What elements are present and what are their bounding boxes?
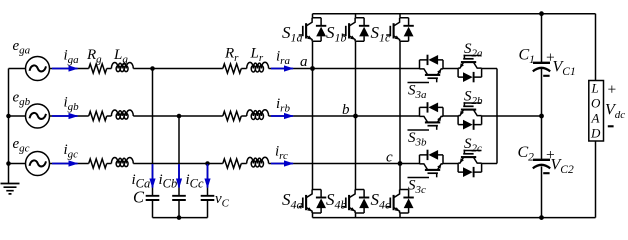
node cap rail junction <box>177 215 182 220</box>
wire top dc rail <box>313 13 596 15</box>
svg-text:S4a: S4a <box>282 190 303 212</box>
svg-text:L: L <box>591 81 599 96</box>
node left-c junction <box>6 161 11 166</box>
inductor Lg phase a <box>111 63 133 69</box>
transistor S3b <box>420 102 444 130</box>
svg-text:Rg: Rg <box>86 47 102 66</box>
node b <box>353 114 358 119</box>
resistor Rg phase c <box>89 159 107 168</box>
wire S3c to S2c <box>443 163 458 165</box>
inductor Lr phase c <box>247 157 269 163</box>
wire phase a to Rr <box>133 68 223 70</box>
svg-text:O: O <box>591 96 601 111</box>
transistor S3a <box>420 55 444 83</box>
current arrow i_Cb <box>178 164 180 188</box>
svg-text:ega: ega <box>13 38 31 57</box>
label S3b overline <box>408 129 430 131</box>
transistor S1a <box>299 18 327 42</box>
node dc bottom junction <box>539 215 544 220</box>
svg-text:iga: iga <box>64 48 80 67</box>
svg-text:igb: igb <box>64 95 80 114</box>
transistor S4b <box>342 190 370 214</box>
wire midpoint bus vertical <box>496 69 498 164</box>
svg-text:Rr: Rr <box>224 46 239 65</box>
current arrow i_rc <box>271 163 293 165</box>
svg-text:S4c: S4c <box>371 190 392 212</box>
wire cap column b <box>178 116 180 196</box>
node cap tap b <box>177 114 182 119</box>
svg-text:C2: C2 <box>518 144 535 164</box>
ac source e_gb <box>26 104 50 128</box>
current arrow i_Cc <box>207 164 209 188</box>
load box <box>589 81 604 142</box>
node cap tap c <box>205 161 210 166</box>
wire phase b to Rr <box>133 115 223 117</box>
capacitor C phase c <box>201 196 215 200</box>
current arrow i_ra <box>271 68 293 70</box>
resistor Rg phase a <box>89 64 107 73</box>
wire dc capacitor stack <box>541 14 543 218</box>
wire source b left <box>9 115 26 117</box>
wire phase a to S3a <box>313 68 420 70</box>
current arrow i_rb <box>271 115 293 117</box>
node cap tap a <box>150 66 155 71</box>
svg-text:S3c: S3c <box>408 178 426 197</box>
svg-text:A: A <box>591 111 600 126</box>
wire phase c to Rg <box>50 163 89 165</box>
wire phase b to Rg <box>50 115 89 117</box>
node capacitor midpoint <box>539 114 544 119</box>
svg-text:S1a: S1a <box>282 23 303 45</box>
wire S3b to S2b <box>443 115 458 117</box>
svg-text:S3b: S3b <box>408 130 427 149</box>
wire left bus vertical <box>8 69 10 184</box>
capacitor C1 <box>533 62 550 64</box>
wire Lr to node c <box>269 163 400 165</box>
wire Lr to node b <box>269 115 356 117</box>
transistor S2c <box>458 150 482 178</box>
svg-text:Lg: Lg <box>113 47 128 66</box>
ground <box>1 184 20 194</box>
label C2 minus <box>543 172 549 174</box>
transistor S1b <box>342 18 370 42</box>
wire leg b <box>355 14 357 218</box>
svg-text:Vdc: Vdc <box>605 102 625 122</box>
wire S2a to midpoint bus <box>482 68 497 70</box>
transistor S4a <box>299 190 327 214</box>
resistor Rr phase a <box>223 64 241 73</box>
transistor S4c <box>386 190 414 214</box>
svg-text:S2a: S2a <box>464 41 483 60</box>
svg-text:S2b: S2b <box>464 89 483 108</box>
resistor Rr phase c <box>223 159 241 168</box>
svg-text:egb: egb <box>13 90 31 109</box>
svg-text:irc: irc <box>275 144 288 163</box>
current arrow i_Ca <box>152 164 154 188</box>
svg-text:Lr: Lr <box>250 46 264 65</box>
svg-text:C1: C1 <box>519 47 535 67</box>
wire <box>241 69 246 164</box>
svg-text:b: b <box>342 102 350 118</box>
svg-text:irb: irb <box>276 96 290 115</box>
svg-text:+: + <box>607 82 617 99</box>
svg-text:C: C <box>133 188 145 207</box>
inductor Lg phase c <box>111 158 133 164</box>
current arrow i_gc <box>52 163 78 165</box>
inductor Lr phase a <box>247 62 269 68</box>
node dc top junction <box>539 11 544 16</box>
svg-text:VC1: VC1 <box>553 59 576 79</box>
capacitor C phase a <box>146 196 160 200</box>
current arrow i_ga <box>52 68 78 70</box>
load wire bottom <box>595 141 597 218</box>
wire phase b to S3b <box>356 115 420 117</box>
ac source e_gc <box>26 152 50 176</box>
svg-text:egc: egc <box>13 136 30 155</box>
wire S2b to capacitor midpoint <box>482 115 542 117</box>
wire <box>107 69 112 164</box>
label S3a overline <box>408 82 430 84</box>
capacitor C phase b <box>172 196 186 200</box>
transistor S2a <box>458 55 482 83</box>
svg-text:vC: vC <box>215 191 230 210</box>
current arrow i_gb <box>52 115 78 117</box>
svg-text:iCb: iCb <box>159 172 178 191</box>
wire S3a to S2a <box>443 68 458 70</box>
svg-text:S3a: S3a <box>408 83 427 102</box>
inductor Lg phase b <box>111 110 133 116</box>
node c <box>398 161 403 166</box>
transistor S3c <box>420 150 444 178</box>
wire S2c to midpoint bus <box>482 163 497 165</box>
node a <box>310 66 315 71</box>
svg-text:VC2: VC2 <box>551 157 574 177</box>
svg-text:iCc: iCc <box>186 172 205 191</box>
wire cap column c <box>207 164 209 196</box>
wire leg c <box>399 14 401 218</box>
transistor S1c <box>386 18 414 42</box>
wire cap bottom rail <box>153 217 208 219</box>
svg-text:S4b: S4b <box>326 190 347 212</box>
svg-text:ira: ira <box>276 49 290 68</box>
label S3c overline <box>408 177 430 179</box>
svg-text:igc: igc <box>64 142 79 161</box>
svg-text:S1b: S1b <box>326 23 347 45</box>
wire Lr to node a <box>269 68 313 70</box>
svg-text:a: a <box>300 54 308 70</box>
ac source e_ga <box>26 57 50 81</box>
inductor Lr phase b <box>247 110 269 116</box>
wire phase c to S3c <box>400 163 420 165</box>
svg-text:D: D <box>590 126 601 141</box>
resistor Rg phase b <box>89 111 107 120</box>
wire cap bottoms to rail <box>153 200 208 218</box>
label C1 minus <box>543 75 549 77</box>
wire bottom dc rail <box>313 217 596 219</box>
wire phase a to Rg <box>50 68 89 70</box>
wire phase c to Rr <box>133 163 223 165</box>
svg-text:S1c: S1c <box>371 23 392 45</box>
label Vdc minus <box>608 125 614 127</box>
node left-b junction <box>6 114 11 119</box>
resistor Rr phase b <box>223 111 241 120</box>
svg-text:c: c <box>386 150 393 166</box>
wire source a left <box>9 68 26 70</box>
load wire top <box>595 14 597 81</box>
transistor S2b <box>458 102 482 130</box>
wire source c left <box>9 163 26 165</box>
wire leg a <box>312 14 314 218</box>
wire cap column a <box>152 69 154 196</box>
capacitor C2 <box>533 159 550 161</box>
svg-text:S2c: S2c <box>464 136 482 155</box>
